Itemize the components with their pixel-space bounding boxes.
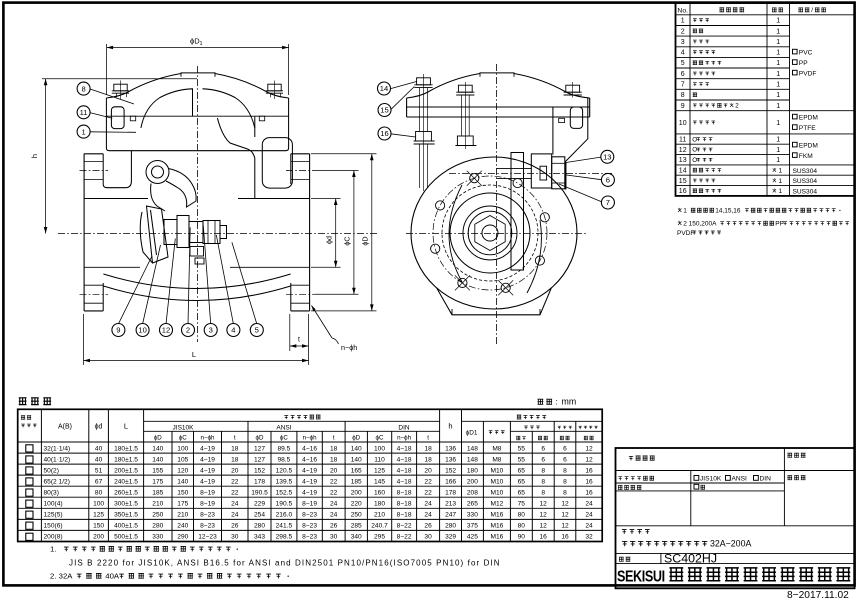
parts table verticals (689, 3, 691, 196)
svg-text:150(6): 150(6) (44, 523, 63, 530)
svg-text:1: 1 (776, 147, 780, 154)
svg-text:32: 32 (585, 534, 593, 541)
right view bonnet dome (407, 73, 590, 98)
svg-text:8: 8 (541, 490, 545, 497)
svg-text:1: 1 (776, 103, 780, 110)
svg-text:12: 12 (561, 512, 569, 519)
unit label 単位 mm (538, 399, 544, 404)
svg-text:180±1.5: 180±1.5 (114, 445, 138, 452)
svg-text:4−18: 4−18 (397, 456, 412, 463)
svg-text:80: 80 (95, 490, 103, 497)
disc edge arc inside (449, 185, 462, 282)
svg-text:139.5: 139.5 (276, 478, 293, 485)
left view: swing check valve front section (30, 37, 378, 366)
svg-text:4−19: 4−19 (302, 490, 317, 497)
svg-text:247: 247 (445, 512, 456, 519)
svg-text:200: 200 (351, 490, 362, 497)
svg-text:18: 18 (231, 456, 239, 463)
svg-text:24: 24 (330, 501, 338, 508)
svg-text:4−18: 4−18 (397, 478, 412, 485)
svg-text:55: 55 (518, 445, 526, 452)
svg-text:89.5: 89.5 (277, 445, 290, 452)
svg-text:1: 1 (776, 92, 780, 99)
title block lines (616, 470, 855, 472)
svg-text:8: 8 (81, 84, 85, 93)
svg-text:65: 65 (518, 478, 526, 485)
svg-text:280: 280 (254, 523, 265, 530)
svg-text:26: 26 (231, 523, 239, 530)
svg-text:100: 100 (374, 445, 385, 452)
svg-text:145: 145 (374, 478, 385, 485)
svg-text:90: 90 (518, 534, 526, 541)
dimension t bottom (289, 314, 291, 351)
svg-text:No.: No. (677, 7, 688, 14)
svg-text::: : (556, 398, 558, 407)
svg-text:n−ϕh: n−ϕh (341, 343, 357, 352)
svg-text:3: 3 (681, 39, 685, 46)
dim table headers (21, 416, 25, 420)
svg-text:140: 140 (177, 478, 188, 485)
svg-text:22: 22 (231, 478, 239, 485)
svg-text:213: 213 (445, 501, 456, 508)
svg-text:10: 10 (679, 120, 687, 127)
svg-text:1: 1 (776, 71, 780, 78)
packing spool (531, 154, 551, 188)
svg-text:L: L (124, 422, 128, 431)
svg-text:40(1·1/2): 40(1·1/2) (44, 456, 71, 463)
svg-text:185: 185 (351, 478, 362, 485)
svg-text:330: 330 (152, 534, 163, 541)
svg-text:ϕD1: ϕD1 (466, 430, 478, 437)
right body top right profile (565, 98, 588, 162)
svg-text:30: 30 (424, 534, 432, 541)
balloon 16 with leader (378, 127, 391, 140)
dim row 65 (26, 478, 33, 485)
svg-text:22: 22 (231, 490, 239, 497)
shaft rod (497, 167, 532, 169)
svg-text:O: O (692, 157, 697, 164)
svg-text:1: 1 (776, 137, 780, 144)
svg-text:8−22: 8−22 (397, 534, 412, 541)
svg-text:1: 1 (776, 28, 780, 35)
svg-text:7: 7 (681, 82, 685, 89)
svg-text:18: 18 (330, 445, 338, 452)
svg-text:24: 24 (585, 512, 593, 519)
svg-text:4−19: 4−19 (302, 478, 317, 485)
svg-text:8−23: 8−23 (302, 534, 317, 541)
svg-text:254: 254 (254, 512, 265, 519)
hinge bracket vertical (511, 153, 524, 271)
svg-text:ϕC: ϕC (179, 435, 187, 442)
svg-text:PP: PP (799, 60, 808, 67)
plug boss 11 on bonnet (111, 107, 124, 129)
svg-text:148: 148 (467, 456, 478, 463)
svg-text:12: 12 (561, 523, 569, 530)
dim table vertical lines (40, 409, 42, 541)
svg-text:12: 12 (679, 147, 687, 154)
svg-text:24: 24 (231, 501, 239, 508)
svg-text:1: 1 (776, 82, 780, 89)
svg-text:12: 12 (585, 456, 593, 463)
bonnet flange plate (106, 98, 288, 151)
svg-text:240: 240 (177, 523, 188, 530)
balloon 15 with leader (378, 104, 391, 117)
svg-text:h: h (448, 422, 452, 431)
title block (616, 448, 855, 588)
hinge arm (166, 169, 196, 208)
svg-text:7: 7 (606, 198, 610, 207)
svg-text:4−19: 4−19 (200, 445, 215, 452)
svg-text:200±1.5: 200±1.5 (114, 467, 138, 474)
balloon 13 with leader (601, 150, 614, 163)
right view vertical centerline (496, 64, 498, 345)
svg-text:JIS10K: JIS10K (700, 475, 722, 482)
svg-text:ϕd: ϕd (325, 236, 334, 244)
svg-text:265: 265 (467, 501, 478, 508)
svg-text:178: 178 (445, 490, 456, 497)
svg-text:n−ϕh: n−ϕh (303, 435, 318, 442)
svg-text:PVDF: PVDF (799, 71, 817, 78)
svg-text:127: 127 (254, 445, 265, 452)
svg-text:40A: 40A (105, 572, 120, 581)
svg-text:18: 18 (330, 456, 338, 463)
svg-text:200: 200 (93, 534, 104, 541)
dim row 150 (26, 522, 33, 529)
svg-text:210: 210 (152, 501, 163, 508)
svg-text:140: 140 (351, 456, 362, 463)
gasket square right view (559, 118, 565, 122)
svg-text:136: 136 (445, 445, 456, 452)
dimension phi-d right (311, 198, 341, 200)
angled passage wall right interior (217, 118, 254, 199)
svg-text:140: 140 (152, 456, 163, 463)
svg-text:SEKISUI: SEKISUI (617, 568, 665, 586)
svg-text:152.5: 152.5 (276, 490, 293, 497)
svg-text:18: 18 (231, 445, 239, 452)
svg-text:8−22: 8−22 (397, 523, 412, 530)
svg-text:8−18: 8−18 (397, 501, 412, 508)
disc hub and stem stack (164, 220, 177, 245)
svg-text:295: 295 (374, 534, 385, 541)
svg-text:50(2): 50(2) (44, 467, 59, 474)
svg-text:148: 148 (467, 445, 478, 452)
svg-text:EPDM: EPDM (799, 115, 818, 122)
svg-text:M10: M10 (490, 467, 503, 474)
svg-text:12: 12 (585, 445, 593, 452)
svg-text:20: 20 (330, 467, 338, 474)
svg-text:18: 18 (424, 445, 432, 452)
bolt B8 left on bonnet (114, 84, 127, 91)
dimension phi-C right (314, 170, 358, 172)
right side slot plate (570, 107, 582, 128)
svg-text:190.5: 190.5 (251, 490, 268, 497)
bolt right on bonnet (268, 84, 281, 91)
parts list table (676, 3, 855, 237)
right view bonnet flange plates (406, 98, 408, 117)
flange disc outline ellipse (411, 157, 577, 309)
right body side wall (552, 107, 554, 154)
svg-text:16: 16 (585, 467, 593, 474)
svg-text:229: 229 (254, 501, 265, 508)
svg-text:67: 67 (95, 478, 103, 485)
bolt right short (566, 85, 580, 92)
svg-text:26: 26 (424, 523, 432, 530)
gland hex nut (552, 157, 565, 189)
svg-text:8: 8 (541, 478, 545, 485)
dim row 50 (26, 467, 33, 474)
gland washer strip (565, 162, 567, 190)
bonnet gasket squares (130, 116, 135, 121)
left pipe flange of body (83, 154, 85, 311)
svg-text:280: 280 (152, 523, 163, 530)
svg-text:PP: PP (775, 221, 784, 228)
entry date field (787, 453, 792, 457)
dim table horizontal lines (144, 420, 440, 422)
svg-text:4−16: 4−16 (302, 456, 317, 463)
svg-text:t: t (333, 435, 335, 442)
receipt stamp field (787, 476, 792, 480)
balloon 8 with leader (77, 82, 90, 95)
svg-text:298.5: 298.5 (276, 534, 293, 541)
disc plate tilted (147, 206, 169, 263)
svg-text:1: 1 (779, 188, 783, 195)
company name big kanji (669, 568, 683, 581)
svg-text:n−ϕh: n−ϕh (201, 435, 216, 442)
svg-text:8−23: 8−23 (200, 523, 215, 530)
balloon 14 with leader (378, 82, 391, 95)
svg-text:O: O (692, 147, 697, 154)
dim row 125 (26, 511, 33, 518)
bolt row second (458, 85, 472, 92)
svg-text:8: 8 (681, 92, 685, 99)
svg-text:4−19: 4−19 (200, 478, 215, 485)
balloon 6 with leader (601, 173, 614, 186)
svg-text:24: 24 (424, 512, 432, 519)
flange bolt holes 8x (470, 174, 479, 183)
svg-text:ANSI: ANSI (276, 425, 291, 432)
svg-text:13: 13 (603, 153, 611, 162)
svg-text:10: 10 (138, 326, 146, 335)
svg-text:20: 20 (424, 467, 432, 474)
svg-text:208: 208 (467, 490, 478, 497)
washer parts below hub (190, 247, 204, 257)
svg-text:A(B): A(B) (58, 424, 72, 431)
svg-text:5: 5 (255, 326, 259, 335)
svg-text:8: 8 (563, 490, 567, 497)
svg-text:100: 100 (93, 501, 104, 508)
svg-text:SUS304: SUS304 (793, 168, 818, 175)
svg-text:210: 210 (374, 512, 385, 519)
svg-text:12−23: 12−23 (198, 534, 217, 541)
svg-text:32(1·1/4): 32(1·1/4) (44, 445, 71, 452)
svg-text:6: 6 (563, 445, 567, 452)
svg-text:290: 290 (177, 534, 188, 541)
svg-text:55: 55 (518, 456, 526, 463)
svg-text:200: 200 (467, 478, 478, 485)
svg-text:30: 30 (330, 534, 338, 541)
svg-text:14: 14 (380, 84, 388, 93)
right view horizontal centerline (406, 233, 588, 235)
svg-text:8: 8 (563, 478, 567, 485)
bore lines right (238, 198, 310, 200)
svg-text:125(5): 125(5) (44, 512, 63, 519)
svg-text:M10: M10 (490, 490, 503, 497)
stem hex nut (203, 221, 220, 244)
svg-text:PVDF: PVDF (677, 230, 694, 237)
svg-text:80: 80 (518, 523, 526, 530)
svg-text:4−19: 4−19 (302, 467, 317, 474)
svg-text:6: 6 (541, 445, 545, 452)
svg-text:20: 20 (231, 467, 239, 474)
parts table row lines (676, 14, 790, 16)
svg-text:120.5: 120.5 (276, 467, 293, 474)
svg-text:65: 65 (518, 490, 526, 497)
svg-text:8−18: 8−18 (397, 490, 412, 497)
svg-text:15: 15 (380, 106, 388, 115)
svg-text:155: 155 (152, 467, 163, 474)
svg-text:1: 1 (81, 127, 85, 136)
svg-text:6: 6 (541, 456, 545, 463)
svg-text:8−18: 8−18 (397, 512, 412, 519)
svg-text:11: 11 (679, 137, 686, 144)
dim row 40 (26, 456, 33, 463)
svg-text:SUS304: SUS304 (793, 178, 818, 185)
svg-text:175: 175 (177, 501, 188, 508)
svg-text:240±1.5: 240±1.5 (114, 478, 138, 485)
svg-text:2: 2 (186, 326, 190, 335)
svg-text:9: 9 (116, 326, 120, 335)
svg-text:ϕD: ϕD (154, 435, 162, 442)
svg-text:11: 11 (80, 108, 88, 117)
svg-text:350±1.5: 350±1.5 (114, 512, 138, 519)
svg-text:216.0: 216.0 (276, 512, 293, 519)
bonnet plateau cap (180, 73, 182, 77)
svg-text:150: 150 (93, 523, 104, 530)
svg-text:4: 4 (681, 50, 685, 57)
svg-text:51: 51 (95, 467, 103, 474)
svg-text:150: 150 (177, 490, 188, 497)
svg-text:24: 24 (585, 523, 593, 530)
svg-text:6: 6 (563, 456, 567, 463)
svg-text:DIN: DIN (398, 425, 410, 432)
svg-text:329: 329 (445, 534, 456, 541)
seat ring (262, 138, 292, 189)
svg-text:200(8): 200(8) (44, 534, 63, 541)
svg-text:500±1.5: 500±1.5 (114, 534, 138, 541)
svg-text:6: 6 (606, 176, 610, 185)
horizontal centerline left view (58, 233, 378, 235)
svg-text:65: 65 (518, 467, 526, 474)
svg-text:M16: M16 (490, 534, 503, 541)
svg-text:375: 375 (467, 523, 478, 530)
right pipe flange of body (309, 154, 311, 311)
svg-text:4−19: 4−19 (200, 467, 215, 474)
svg-text:ϕD: ϕD (352, 435, 360, 442)
svg-text:SC402HJ: SC402HJ (664, 551, 717, 565)
bottom footing (437, 288, 552, 315)
svg-text:1.: 1. (50, 545, 56, 554)
svg-text:/: / (811, 7, 813, 14)
svg-text:mm: mm (562, 397, 577, 407)
svg-text:400±1.5: 400±1.5 (114, 523, 138, 530)
svg-text:30: 30 (231, 534, 239, 541)
svg-text:1: 1 (683, 208, 687, 215)
svg-text:175: 175 (152, 478, 163, 485)
svg-text:JIS10K: JIS10K (173, 425, 195, 432)
svg-text:80(3): 80(3) (44, 490, 59, 497)
raised face circles (450, 193, 530, 273)
dimension L bottom (83, 314, 85, 365)
svg-text:t: t (427, 435, 429, 442)
vertical centerline left view (197, 66, 199, 342)
svg-text:16: 16 (585, 490, 593, 497)
svg-text:FKM: FKM (799, 153, 813, 160)
svg-text:22: 22 (424, 478, 432, 485)
svg-text:166: 166 (445, 478, 456, 485)
svg-text:4−16: 4−16 (302, 445, 317, 452)
material column entries (793, 49, 798, 54)
svg-text:1: 1 (776, 18, 780, 25)
svg-text:300±1.5: 300±1.5 (114, 501, 138, 508)
svg-text:8−23: 8−23 (200, 512, 215, 519)
bonnet inner dome wall (141, 89, 255, 128)
svg-text:18: 18 (424, 456, 432, 463)
svg-text:110: 110 (374, 456, 385, 463)
svg-text:180: 180 (467, 467, 478, 474)
svg-text:16: 16 (380, 129, 388, 138)
svg-text:2. 32A: 2. 32A (50, 572, 73, 581)
svg-text:1: 1 (776, 50, 780, 57)
svg-text:8−19: 8−19 (200, 501, 215, 508)
bore lines left (84, 198, 148, 200)
svg-text:210: 210 (177, 512, 188, 519)
svg-text:n−ϕh: n−ϕh (397, 435, 412, 442)
right flange bolt holes (291, 161, 310, 163)
svg-text:M10: M10 (490, 478, 503, 485)
svg-text:16: 16 (585, 478, 593, 485)
balloon 1 with leader (77, 125, 90, 138)
bolt circle dashed (433, 176, 547, 290)
parts table notes (678, 208, 681, 212)
svg-text:178: 178 (254, 478, 265, 485)
svg-text:165: 165 (351, 467, 362, 474)
svg-text:100: 100 (177, 445, 188, 452)
svg-text:65(2 1/2): 65(2 1/2) (44, 478, 70, 485)
svg-text:2 150,200A: 2 150,200A (683, 221, 717, 228)
dimension phiD1 top (106, 44, 108, 95)
svg-text:12: 12 (540, 501, 548, 508)
svg-text:330: 330 (467, 512, 478, 519)
svg-text:125: 125 (93, 512, 104, 519)
dimension h left (42, 78, 197, 80)
svg-text:2: 2 (681, 28, 685, 35)
dimension table title 寸法表 (19, 398, 27, 405)
svg-text:24: 24 (231, 512, 239, 519)
svg-text:PVC: PVC (799, 50, 813, 57)
hinge shaft boss circles (146, 161, 169, 184)
svg-text:ϕD: ϕD (256, 435, 264, 442)
svg-text:24: 24 (585, 501, 593, 508)
svg-text:1: 1 (779, 178, 783, 185)
product name swing check valve 32A-200A (622, 541, 627, 546)
svg-text:152: 152 (445, 467, 456, 474)
svg-text:26: 26 (330, 523, 338, 530)
svg-text:M8: M8 (492, 456, 501, 463)
svg-text:32A−200A: 32A−200A (710, 539, 751, 549)
svg-text:241.5: 241.5 (276, 523, 293, 530)
svg-text:22: 22 (424, 490, 432, 497)
svg-text:16: 16 (679, 188, 687, 195)
